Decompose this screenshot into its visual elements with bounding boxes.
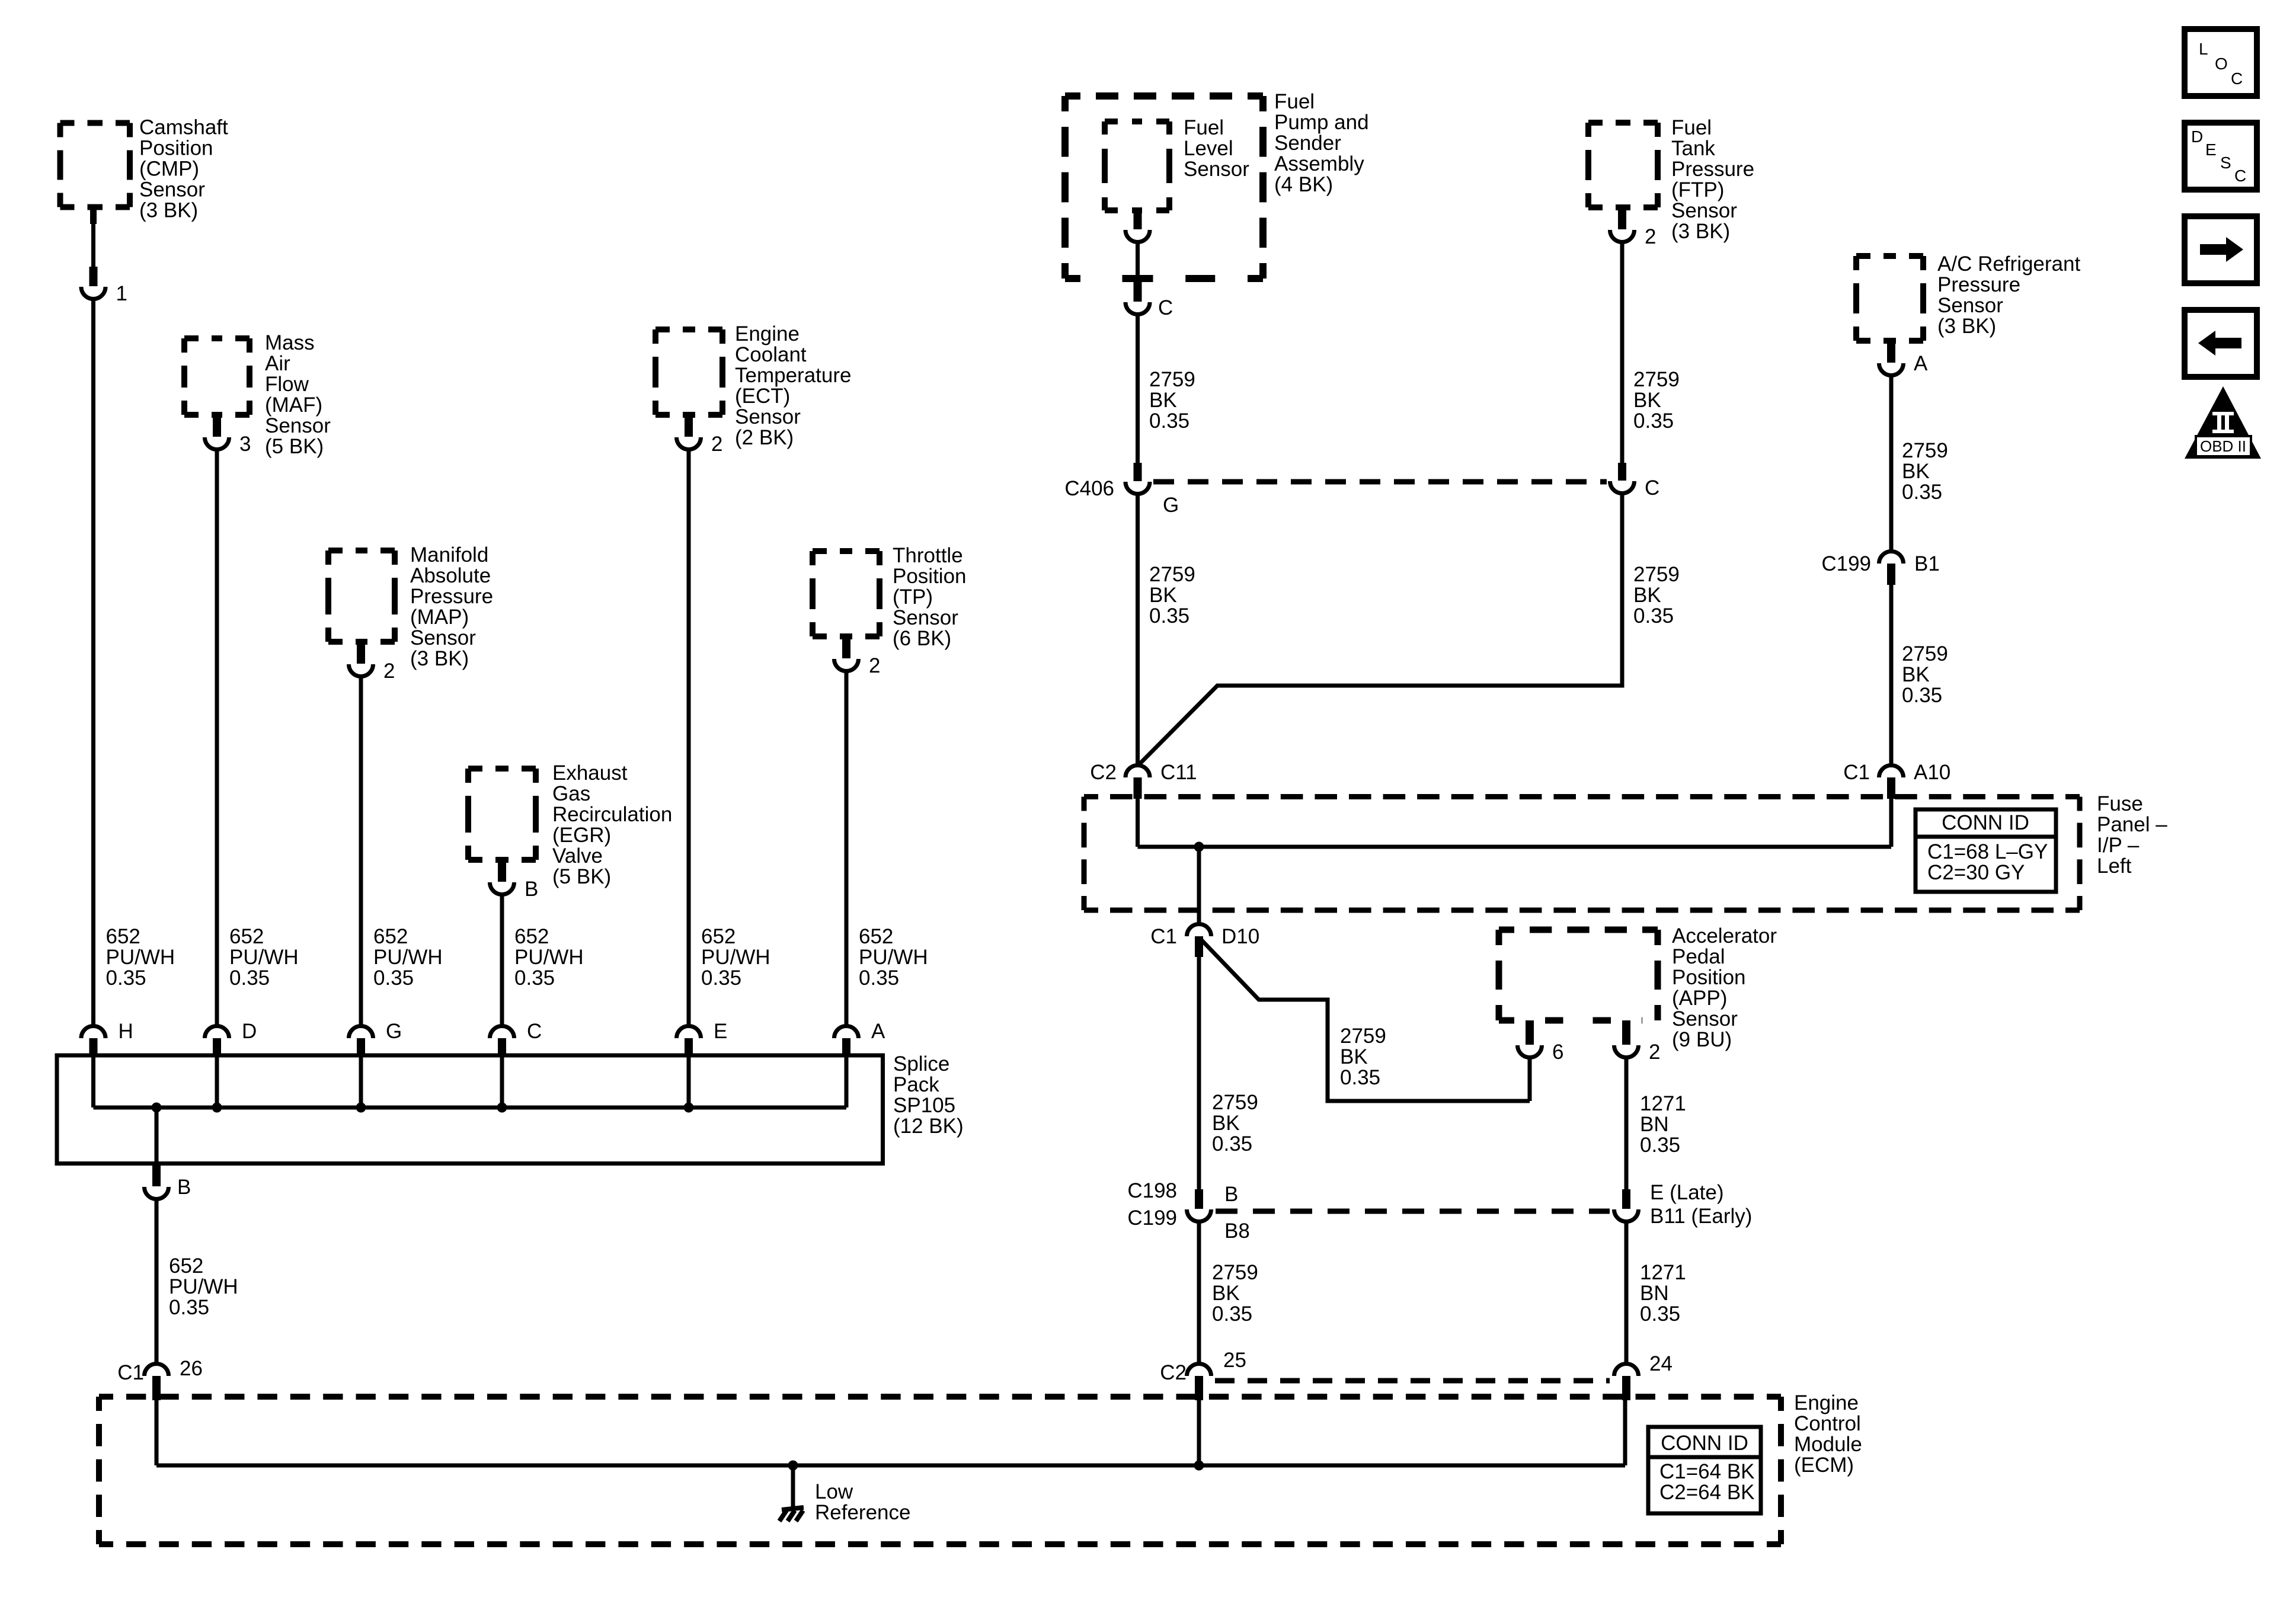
EGR valve box (468, 769, 536, 860)
splice pin C (498, 1038, 506, 1057)
svg-text:C2=30 GY: C2=30 GY (1927, 861, 2025, 884)
svg-text:B: B (1224, 1183, 1238, 1206)
svg-text:0.35: 0.35 (1902, 684, 1942, 707)
wire splice A to bus (845, 1057, 849, 1108)
svg-text:BK: BK (1149, 584, 1177, 607)
svg-text:26: 26 (180, 1357, 203, 1380)
fuel pump output pin C (1134, 279, 1142, 302)
splice junction (497, 1103, 507, 1113)
DESC icon box (2185, 123, 2257, 190)
svg-text:Sender: Sender (1274, 132, 1341, 155)
svg-text:Flow: Flow (265, 373, 309, 396)
APP pin 2 (1622, 1020, 1630, 1045)
wire A down (1889, 375, 1894, 550)
wire A10 riser (1889, 799, 1894, 847)
svg-text:Position: Position (893, 565, 967, 588)
svg-text:Gas: Gas (552, 782, 590, 805)
svg-text:(3 BK): (3 BK) (1937, 315, 1996, 338)
connector C2 C11 pin (1134, 777, 1142, 799)
connector 24 arch (1614, 1364, 1639, 1377)
svg-text:C2=64 BK: C2=64 BK (1659, 1481, 1755, 1504)
connector C2 25 pin (1195, 1376, 1203, 1400)
svg-text:D: D (242, 1020, 257, 1043)
svg-text:652: 652 (229, 925, 264, 948)
wire ECM 24 up (1623, 1400, 1627, 1465)
CMP pin stub (90, 207, 97, 224)
svg-text:O: O (2215, 55, 2228, 73)
svg-text:C: C (2234, 167, 2246, 185)
wire splice C to bus (500, 1057, 504, 1108)
engine coolant temperature ECT sensor box (655, 329, 722, 415)
fuse CONN ID box (1916, 809, 2056, 892)
svg-text:24: 24 (1649, 1352, 1673, 1375)
dashed link C406 to C (1153, 479, 1607, 485)
svg-text:Sensor: Sensor (735, 405, 801, 428)
connector C199 B1 arch (1879, 552, 1904, 564)
svg-text:Pump and: Pump and (1274, 111, 1369, 134)
svg-text:Mass: Mass (265, 331, 315, 354)
svg-text:(CMP): (CMP) (139, 158, 199, 181)
OBD II triangle (2185, 386, 2261, 459)
connector C406 cup G (1125, 482, 1150, 494)
LOC icon box (2185, 29, 2257, 96)
svg-text:BK: BK (1633, 584, 1661, 607)
svg-text:S: S (2220, 153, 2231, 172)
svg-text:(3 BK): (3 BK) (410, 647, 469, 670)
svg-text:A/C Refrigerant: A/C Refrigerant (1937, 252, 2080, 276)
svg-text:PU/WH: PU/WH (373, 946, 443, 969)
fuse panel internal wire (1138, 845, 1892, 849)
svg-text:Absolute: Absolute (410, 564, 491, 587)
svg-text:BK: BK (1902, 663, 1930, 686)
connector C1 D10 arch (1187, 924, 1211, 936)
svg-text:SP105: SP105 (893, 1094, 955, 1117)
svg-text:C198: C198 (1127, 1179, 1177, 1202)
svg-text:2759: 2759 (1902, 642, 1948, 665)
wire fuel level inside (1136, 242, 1140, 279)
svg-text:Left: Left (2097, 854, 2132, 878)
EGR valve pin B (498, 860, 506, 882)
left arrow (2198, 331, 2241, 356)
right arrow (2200, 237, 2243, 262)
svg-text:OBD II: OBD II (2200, 437, 2246, 455)
svg-text:C199: C199 (1127, 1206, 1177, 1230)
connector C1 A10 arch (1879, 765, 1904, 777)
wire EGR down to splice pack (500, 894, 504, 1026)
svg-text:Low: Low (815, 1480, 853, 1503)
connector C2 25 arch (1187, 1364, 1211, 1377)
svg-text:BN: BN (1640, 1282, 1669, 1305)
OBD II pillar (2212, 412, 2234, 433)
svg-text:(2 BK): (2 BK) (735, 426, 794, 449)
connector C1 D10 pin (1195, 936, 1203, 957)
svg-text:Air: Air (265, 352, 290, 375)
svg-text:652: 652 (859, 925, 893, 948)
splice arch E (677, 1026, 701, 1038)
ECM ground junction (788, 1461, 798, 1471)
svg-text:C: C (527, 1020, 542, 1043)
wire splice B drop (155, 1108, 159, 1164)
svg-text:G: G (1163, 494, 1179, 517)
splice junction (684, 1103, 694, 1113)
splice arch G (349, 1026, 373, 1038)
mass air flow MAF sensor box (184, 338, 250, 415)
svg-text:0.35: 0.35 (373, 966, 414, 990)
svg-text:Sensor: Sensor (139, 178, 205, 201)
svg-text:BK: BK (1340, 1045, 1368, 1068)
svg-text:PU/WH: PU/WH (229, 946, 299, 969)
wire CMP to connector 1 (91, 224, 95, 267)
svg-text:(9 BU): (9 BU) (1672, 1028, 1732, 1051)
splice pin E (685, 1038, 693, 1057)
svg-text:D10: D10 (1221, 925, 1259, 948)
wire B to C1 26 (155, 1199, 159, 1363)
APP cup 2 (1614, 1045, 1639, 1057)
fuse panel box (1084, 797, 2080, 911)
svg-text:Temperature: Temperature (735, 364, 851, 387)
svg-text:0.35: 0.35 (701, 966, 741, 990)
svg-text:Pedal: Pedal (1672, 945, 1725, 968)
connector C198 C199 pin (1195, 1189, 1203, 1209)
svg-text:Fuel: Fuel (1274, 90, 1315, 113)
svg-text:Splice: Splice (893, 1052, 949, 1076)
svg-text:C11: C11 (1160, 761, 1197, 784)
FTP connector C cup (1610, 481, 1635, 494)
svg-text:2: 2 (1649, 1041, 1660, 1064)
svg-text:0.35: 0.35 (1212, 1132, 1252, 1156)
connector cup pin 2 (834, 659, 859, 671)
svg-text:Control: Control (1794, 1412, 1861, 1435)
svg-text:(TP): (TP) (893, 585, 933, 609)
wire ECT down to splice pack (687, 449, 691, 1026)
svg-text:0.35: 0.35 (1212, 1302, 1252, 1326)
splice arch A (834, 1026, 859, 1038)
svg-text:PU/WH: PU/WH (859, 946, 928, 969)
A/C pin A (1887, 341, 1895, 363)
APP cup 6 (1518, 1045, 1542, 1057)
svg-text:BK: BK (1633, 389, 1661, 412)
svg-text:0.35: 0.35 (514, 966, 555, 990)
connector 24 pin (1622, 1376, 1630, 1400)
svg-text:0.35: 0.35 (169, 1296, 209, 1319)
wire ECM 25 down (1197, 1400, 1201, 1465)
svg-text:E: E (714, 1020, 727, 1043)
ECM junction 25 (1194, 1461, 1204, 1471)
svg-text:Pack: Pack (893, 1073, 939, 1096)
svg-text:B1: B1 (1914, 552, 1940, 575)
splice pack SP105 box (57, 1055, 883, 1164)
connector 1 pin (89, 267, 98, 286)
svg-text:652: 652 (373, 925, 408, 948)
svg-text:Module: Module (1794, 1433, 1862, 1456)
svg-text:0.35: 0.35 (1633, 409, 1674, 433)
svg-text:0.35: 0.35 (859, 966, 899, 990)
svg-text:G: G (386, 1020, 402, 1043)
svg-text:652: 652 (701, 925, 736, 948)
splice junction (152, 1103, 162, 1113)
connector C198 C199 cup (1187, 1209, 1211, 1222)
svg-text:0.35: 0.35 (1902, 481, 1942, 504)
svg-text:Assembly: Assembly (1274, 152, 1364, 175)
svg-text:Fuse: Fuse (2097, 792, 2143, 815)
svg-text:C1: C1 (117, 1361, 144, 1384)
svg-text:652: 652 (514, 925, 549, 948)
mass air flow MAF sensor pin 3 (213, 415, 221, 437)
wire ECM C1 26 down (155, 1400, 159, 1465)
svg-text:Position: Position (1672, 966, 1746, 989)
splice pin D (213, 1038, 221, 1057)
svg-text:0.35: 0.35 (229, 966, 270, 990)
svg-text:(ECT): (ECT) (735, 385, 790, 408)
svg-text:2759: 2759 (1633, 368, 1680, 391)
svg-text:(3 BK): (3 BK) (1671, 220, 1730, 243)
svg-text:C2: C2 (1160, 1361, 1187, 1384)
wire TP down to splice pack (845, 671, 849, 1026)
svg-text:Sensor: Sensor (265, 414, 331, 437)
svg-text:0.35: 0.35 (1633, 604, 1674, 628)
svg-text:(FTP): (FTP) (1671, 178, 1724, 201)
fuel pump output cup C (1125, 302, 1150, 315)
wire splice D to bus (215, 1057, 219, 1108)
wire splice H to bus (91, 1057, 95, 1108)
wire APP 2 down (1625, 1057, 1629, 1189)
connector C1 A10 pin (1887, 777, 1895, 799)
svg-text:C: C (1158, 296, 1173, 319)
svg-text:2759: 2759 (1633, 563, 1680, 586)
svg-text:(5 BK): (5 BK) (265, 435, 324, 458)
svg-text:E (Late): E (Late) (1650, 1181, 1724, 1204)
svg-text:652: 652 (169, 1254, 203, 1278)
OBD II label box (2196, 436, 2251, 456)
svg-text:PU/WH: PU/WH (701, 946, 770, 969)
wire C down to C406 (1136, 314, 1140, 463)
svg-text:B: B (177, 1176, 191, 1199)
connector C1 26 arch (145, 1364, 169, 1377)
svg-text:BK: BK (1902, 460, 1930, 483)
svg-text:Sensor: Sensor (1672, 1007, 1738, 1030)
svg-text:(12 BK): (12 BK) (893, 1115, 964, 1138)
camshaft position CMP sensor box (60, 123, 130, 207)
svg-text:C1: C1 (1843, 761, 1870, 784)
svg-text:2759: 2759 (1149, 563, 1195, 586)
svg-text:Panel –: Panel – (2097, 813, 2167, 836)
throttle position TP sensor pin 2 (842, 636, 850, 658)
DESC letters (2191, 127, 2246, 185)
wire B8 down (1197, 1222, 1201, 1363)
svg-text:2759: 2759 (1902, 439, 1948, 462)
connector cup pin 2 (349, 664, 373, 677)
svg-text:Exhaust: Exhaust (552, 761, 628, 785)
wire D10 diagonal to APP 6 (1201, 939, 1530, 1101)
svg-text:Position: Position (139, 137, 213, 160)
left arrow icon box (2185, 310, 2257, 377)
svg-text:2: 2 (383, 660, 395, 683)
dashed link B8 to B11 (1216, 1209, 1610, 1214)
svg-text:Fuel: Fuel (1671, 116, 1712, 139)
svg-text:Pressure: Pressure (1671, 158, 1754, 181)
svg-text:2759: 2759 (1212, 1091, 1258, 1114)
svg-text:Engine: Engine (1794, 1391, 1859, 1414)
fuel level cup (1125, 230, 1150, 242)
svg-text:B11 (Early): B11 (Early) (1650, 1205, 1752, 1228)
svg-text:BK: BK (1212, 1112, 1240, 1135)
svg-text:Sensor: Sensor (1184, 158, 1249, 181)
svg-text:Tank: Tank (1671, 137, 1715, 160)
svg-text:0.35: 0.35 (1340, 1066, 1380, 1089)
FTP cup 2 (1610, 230, 1635, 242)
svg-text:6: 6 (1552, 1041, 1563, 1064)
wire C11 down (1136, 799, 1140, 847)
svg-text:BN: BN (1640, 1113, 1669, 1136)
connector cup pin 3 (205, 437, 229, 450)
ground stub (791, 1465, 795, 1507)
svg-text:0.35: 0.35 (1640, 1302, 1680, 1326)
connector E B11 cup (1614, 1209, 1639, 1222)
svg-text:C2: C2 (1090, 761, 1117, 784)
splice junction (356, 1103, 366, 1113)
svg-text:0.35: 0.35 (1149, 409, 1189, 433)
splice bus wire (94, 1106, 847, 1110)
connector C2 C11 arch (1125, 765, 1150, 777)
svg-text:25: 25 (1223, 1349, 1246, 1372)
A/C cup A (1879, 363, 1904, 375)
wire B11 down (1625, 1222, 1629, 1363)
wire B1 down (1889, 585, 1894, 765)
svg-text:Coolant: Coolant (735, 343, 807, 366)
fuse junction D10 (1194, 842, 1204, 852)
svg-text:A10: A10 (1914, 761, 1950, 784)
svg-text:PU/WH: PU/WH (106, 946, 175, 969)
wire MAF down to splice pack (215, 449, 219, 1026)
svg-text:(3 BK): (3 BK) (139, 199, 198, 222)
svg-text:PU/WH: PU/WH (514, 946, 584, 969)
svg-text:(MAP): (MAP) (410, 606, 469, 629)
connector cup pin B (490, 882, 514, 894)
svg-text:(APP): (APP) (1672, 987, 1727, 1010)
svg-text:(EGR): (EGR) (552, 824, 611, 847)
svg-text:Sensor: Sensor (893, 606, 958, 629)
splice junction (212, 1103, 222, 1113)
svg-text:C1=64 BK: C1=64 BK (1659, 1460, 1755, 1483)
svg-text:Fuel: Fuel (1184, 116, 1224, 139)
svg-text:Recirculation: Recirculation (552, 803, 672, 826)
wire splice E to bus (687, 1057, 691, 1108)
throttle position TP sensor box (813, 551, 880, 636)
svg-text:L: L (2199, 40, 2208, 58)
svg-text:1271: 1271 (1640, 1092, 1686, 1115)
svg-text:Sensor: Sensor (410, 626, 476, 649)
svg-text:(4 BK): (4 BK) (1274, 173, 1333, 196)
wire MAP down to splice pack (359, 676, 363, 1026)
svg-text:2: 2 (869, 654, 880, 677)
manifold absolute pressure MAP sensor pin 2 (357, 642, 365, 664)
connector 1 cup (81, 287, 105, 299)
svg-text:Valve: Valve (552, 844, 603, 868)
dashed link 25 to 24 (1215, 1378, 1610, 1384)
svg-text:C406: C406 (1064, 477, 1114, 500)
svg-text:2: 2 (1645, 225, 1656, 248)
svg-text:A: A (1914, 352, 1928, 375)
ground symbol (779, 1507, 804, 1521)
splice arch C (490, 1026, 514, 1038)
svg-text:E: E (2205, 140, 2217, 159)
svg-text:D: D (2191, 127, 2203, 146)
engine coolant temperature ECT sensor pin 2 (685, 415, 693, 437)
wire D10 down (1197, 957, 1201, 1189)
svg-text:2: 2 (711, 433, 722, 456)
svg-text:CONN ID: CONN ID (1661, 1432, 1748, 1455)
svg-text:B8: B8 (1224, 1219, 1250, 1243)
A/C refrigerant pressure sensor box (1856, 256, 1923, 341)
svg-text:A: A (871, 1020, 885, 1043)
svg-text:C1: C1 (1150, 925, 1177, 948)
manifold absolute pressure MAP sensor box (328, 550, 395, 642)
svg-text:(MAF): (MAF) (265, 393, 322, 417)
right arrow icon box (2185, 216, 2257, 283)
svg-text:Throttle: Throttle (893, 544, 963, 567)
svg-text:Engine: Engine (735, 322, 800, 345)
svg-text:0.35: 0.35 (1640, 1134, 1680, 1157)
svg-text:Manifold: Manifold (410, 543, 488, 566)
splice pin G (357, 1038, 365, 1057)
svg-text:C: C (2231, 69, 2243, 88)
splice pin H (89, 1038, 98, 1057)
fuel level sensor box (1105, 121, 1169, 210)
FTP pin 2 (1618, 207, 1626, 229)
svg-text:I/P –: I/P – (2097, 834, 2140, 857)
svg-text:Level: Level (1184, 137, 1233, 160)
svg-text:BK: BK (1149, 389, 1177, 412)
svg-text:B: B (525, 878, 538, 901)
wire FTP C down bend and diagonal to C11 (1140, 493, 1622, 764)
connector cup pin 2 (677, 437, 701, 450)
svg-text:C: C (1645, 476, 1659, 500)
splice output cup B (145, 1187, 169, 1199)
svg-text:3: 3 (239, 433, 251, 456)
svg-text:1: 1 (116, 282, 127, 305)
svg-text:(5 BK): (5 BK) (552, 865, 611, 888)
wire FTP down (1620, 242, 1625, 463)
svg-text:H: H (119, 1020, 133, 1043)
connector C1 26 pin (152, 1376, 161, 1400)
splice arch H (81, 1026, 105, 1038)
fuel pump and sender assembly box (1065, 96, 1263, 279)
accelerator pedal position APP sensor box (1499, 930, 1658, 1020)
svg-text:2759: 2759 (1149, 368, 1195, 391)
svg-text:Pressure: Pressure (1937, 273, 2020, 296)
svg-text:Accelerator: Accelerator (1672, 924, 1777, 948)
ECM box (99, 1397, 1781, 1544)
svg-text:Camshaft: Camshaft (139, 116, 228, 139)
svg-text:0.35: 0.35 (1149, 604, 1189, 628)
wire CMP connector 1 to splice H (91, 299, 95, 1026)
svg-text:0.35: 0.35 (106, 966, 146, 990)
APP pin 6 (1526, 1020, 1534, 1045)
svg-text:CONN ID: CONN ID (1942, 811, 2029, 834)
svg-text:C199: C199 (1821, 552, 1871, 575)
splice output pin B (152, 1164, 161, 1186)
connector C199 B1 pin (1887, 564, 1895, 585)
fuel tank pressure FTP sensor box (1588, 123, 1658, 207)
splice arch D (205, 1026, 229, 1038)
ECM CONN ID box (1648, 1427, 1761, 1513)
fuel level pin (1134, 210, 1142, 229)
FTP connector C pin (1618, 463, 1626, 481)
ECM low reference wire (156, 1464, 1625, 1468)
svg-text:1271: 1271 (1640, 1261, 1686, 1284)
wire APP 6 up (1528, 1057, 1532, 1101)
svg-text:652: 652 (106, 925, 140, 948)
